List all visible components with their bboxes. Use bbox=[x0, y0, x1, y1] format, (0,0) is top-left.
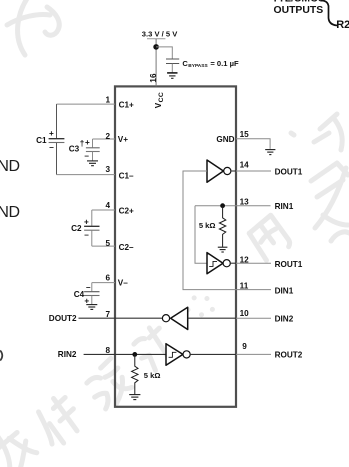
pin 11 stub bbox=[236, 289, 271, 291]
svg-text:C2–: C2– bbox=[119, 243, 134, 252]
receiver R2 triangle bbox=[166, 344, 183, 366]
wire T1 output to pin 14 bbox=[231, 170, 236, 172]
wire T2 input to pin 10 bbox=[188, 317, 236, 319]
driver T2 output bubble bbox=[162, 315, 169, 322]
junction dot pin 13 bbox=[220, 203, 225, 208]
svg-text:C3: C3 bbox=[69, 145, 80, 154]
svg-text:ROUT2: ROUT2 bbox=[275, 351, 303, 360]
pin 3 C1- bbox=[57, 174, 116, 176]
wire R1 output to pin 12 bbox=[230, 262, 236, 264]
svg-text:16: 16 bbox=[149, 73, 158, 83]
wire box to R1 input bbox=[195, 206, 207, 264]
wire C1 top bbox=[56, 104, 58, 138]
svg-text:ND: ND bbox=[0, 158, 20, 175]
svg-text:11: 11 bbox=[240, 281, 249, 290]
svg-text:V+: V+ bbox=[118, 135, 128, 144]
pin 13 stub bbox=[236, 205, 271, 207]
schmitt symbol R1 bbox=[209, 261, 217, 266]
pin 13 wire bbox=[195, 205, 236, 207]
svg-text:+: + bbox=[84, 296, 89, 305]
pin 8 wire bbox=[84, 353, 167, 355]
wire C1 bottom bbox=[56, 143, 58, 175]
svg-text:4: 4 bbox=[105, 201, 110, 210]
svg-text:C2+: C2+ bbox=[119, 206, 134, 215]
ground at pin 15 bbox=[265, 150, 275, 155]
svg-text:C2: C2 bbox=[71, 224, 82, 233]
pin 14 stub bbox=[236, 170, 271, 172]
resistor 5k (R2 input) bbox=[132, 354, 138, 394]
ground below C4 bbox=[86, 305, 97, 310]
supply terminal bar bbox=[147, 38, 165, 40]
svg-text:3.3 V / 5 V: 3.3 V / 5 V bbox=[142, 30, 178, 39]
svg-text:–: – bbox=[86, 283, 91, 292]
svg-text:ND: ND bbox=[0, 204, 20, 221]
schmitt symbol R2 bbox=[169, 352, 177, 357]
svg-text:–: – bbox=[49, 143, 54, 152]
pin 6 V- bbox=[92, 282, 115, 284]
wire C2 bottom bbox=[91, 231, 93, 247]
svg-text:DOUT1: DOUT1 bbox=[275, 167, 303, 176]
svg-text:14: 14 bbox=[240, 161, 250, 170]
svg-text:C1+: C1+ bbox=[119, 101, 134, 110]
svg-text:C1: C1 bbox=[36, 136, 47, 145]
wire C3 to ground bbox=[92, 152, 94, 161]
pin 9 stub bbox=[236, 353, 271, 355]
capacitor C2 bbox=[84, 226, 99, 230]
ground below resistor (upper) bbox=[218, 247, 228, 252]
IC body U1 bbox=[115, 86, 236, 406]
svg-text:–: – bbox=[84, 231, 89, 240]
svg-text:DOUT2: DOUT2 bbox=[49, 314, 77, 323]
svg-text:V–: V– bbox=[118, 278, 128, 287]
svg-text:5 kΩ: 5 kΩ bbox=[144, 371, 161, 380]
wire T1 input path to pin 11 bbox=[183, 171, 236, 290]
svg-text:–: – bbox=[84, 152, 89, 161]
capacitor C4 bbox=[84, 292, 99, 296]
pin 12 stub bbox=[236, 262, 271, 264]
svg-text:6: 6 bbox=[105, 273, 110, 282]
svg-text:DIN1: DIN1 bbox=[275, 286, 294, 295]
svg-text:5: 5 bbox=[105, 239, 110, 248]
capacitor C3 bbox=[86, 148, 100, 152]
svg-text:1: 1 bbox=[105, 96, 110, 105]
ground below C3 bbox=[87, 161, 98, 166]
svg-text:3: 3 bbox=[105, 165, 110, 174]
wire C4 to ground bbox=[91, 296, 93, 305]
capacitor C1 bbox=[49, 139, 65, 143]
brace to R2 bbox=[322, 0, 337, 25]
pin 10 stub bbox=[236, 317, 271, 319]
ground below resistor (lower) bbox=[129, 395, 140, 400]
svg-text:RIN2: RIN2 bbox=[58, 350, 77, 359]
junction dot VCC bbox=[153, 44, 159, 50]
pin 7 wire bbox=[79, 317, 163, 319]
wire to bypass cap bbox=[156, 47, 172, 59]
svg-text:C1–: C1– bbox=[119, 171, 134, 180]
cropped glyph left edge bbox=[0, 350, 2, 360]
pin 5 C2- bbox=[92, 245, 115, 247]
wire C2 top bbox=[91, 210, 93, 226]
pin 1 C1+ bbox=[57, 103, 116, 105]
svg-text:2: 2 bbox=[105, 132, 110, 141]
svg-text:7: 7 bbox=[105, 310, 110, 319]
svg-text:+: + bbox=[49, 129, 54, 138]
svg-text:OUTPUTS: OUTPUTS bbox=[274, 5, 324, 16]
receiver R1 output bubble bbox=[223, 260, 230, 267]
ground below CBYPASS bbox=[167, 73, 177, 78]
svg-text:DIN2: DIN2 bbox=[275, 315, 294, 324]
wire R2 output to pin 9 bbox=[190, 353, 236, 355]
svg-text:10: 10 bbox=[240, 309, 250, 318]
svg-text:ROUT1: ROUT1 bbox=[275, 260, 303, 269]
junction dot pin 8 bbox=[132, 352, 137, 357]
svg-text:9: 9 bbox=[242, 342, 247, 351]
wire VCC vertical bbox=[155, 39, 157, 87]
svg-text:TTL/CMOS: TTL/CMOS bbox=[272, 0, 325, 4]
svg-text:15: 15 bbox=[240, 130, 250, 139]
pin 2 V+ bbox=[93, 138, 116, 140]
svg-text:5 kΩ: 5 kΩ bbox=[199, 221, 216, 230]
receiver R2 output bubble bbox=[183, 351, 190, 358]
svg-text:+: + bbox=[85, 138, 90, 147]
svg-text:GND: GND bbox=[216, 135, 234, 144]
pin 4 C2+ bbox=[92, 209, 115, 211]
driver T1 triangle bbox=[207, 160, 223, 182]
receiver R1 triangle bbox=[207, 253, 223, 274]
svg-text:13: 13 bbox=[240, 197, 250, 206]
wire C3 top bbox=[92, 139, 94, 147]
pin 15 wire bbox=[236, 139, 270, 149]
svg-text:12: 12 bbox=[240, 256, 250, 265]
svg-text:C4: C4 bbox=[74, 290, 85, 299]
svg-text:†: † bbox=[80, 139, 85, 148]
driver T2 triangle bbox=[171, 307, 188, 329]
svg-text:R2: R2 bbox=[336, 19, 349, 31]
resistor 5k (R1 input) bbox=[219, 206, 225, 247]
wire C4 top bbox=[91, 283, 93, 292]
svg-text:RIN1: RIN1 bbox=[275, 202, 294, 211]
capacitor CBYPASS bbox=[166, 59, 179, 64]
svg-text:+: + bbox=[84, 217, 89, 226]
svg-text:8: 8 bbox=[105, 346, 110, 355]
driver T1 output bubble bbox=[224, 167, 231, 174]
